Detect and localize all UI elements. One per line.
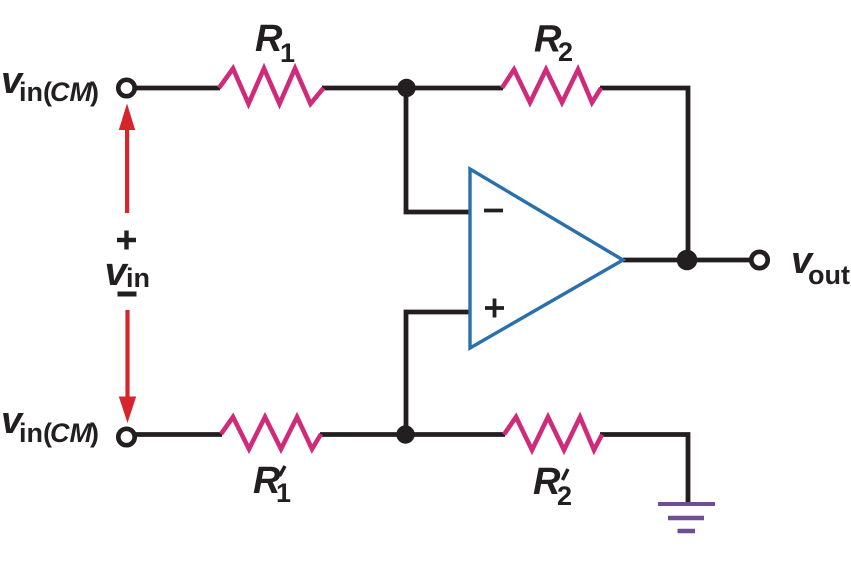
op-amp U1 triangle <box>470 169 623 348</box>
op-amp minus input sign <box>484 209 503 213</box>
wire op-amp output to terminal <box>623 258 750 263</box>
terminal circle bottom-left vin(CM) <box>118 429 134 445</box>
wire R2' to right corner and down to ground <box>600 435 688 503</box>
wire R2 to right corner and down to output node <box>600 88 688 260</box>
resistor R1 <box>219 69 324 104</box>
svg-text:): ) <box>90 418 99 448</box>
svg-text:1: 1 <box>276 478 291 508</box>
wire inverting input from top node <box>406 88 470 212</box>
wire bottom-left horizontal <box>134 432 222 437</box>
svg-text:CM: CM <box>50 77 92 107</box>
node junction output <box>677 250 698 271</box>
wire R1 to R2 through node <box>322 86 503 91</box>
svg-text:in(: in( <box>19 77 52 107</box>
node junction bottom (R1'/R2'/noninverting) <box>396 425 414 443</box>
terminal circle output vout <box>751 252 767 268</box>
svg-text:in: in <box>126 263 150 293</box>
svg-text:out: out <box>808 260 850 290</box>
resistor R1' <box>221 417 321 449</box>
svg-text:CM: CM <box>50 418 92 448</box>
svg-text:in(: in( <box>19 418 52 448</box>
terminal circle top-left vin(CM) <box>118 80 134 96</box>
arrow up (vin +) <box>119 104 135 214</box>
wire top-left horizontal <box>134 86 220 91</box>
resistor R2 <box>502 70 601 103</box>
ground symbol <box>658 504 715 531</box>
svg-text:R: R <box>255 18 283 60</box>
node junction top (R1/R2/inverting) <box>397 79 415 97</box>
svg-text:2: 2 <box>557 481 572 511</box>
wire R1' to R2' through node <box>320 432 505 437</box>
op-amp plus input sign <box>485 299 504 318</box>
plus sign above vin <box>117 231 136 250</box>
svg-text:2: 2 <box>558 37 573 67</box>
resistor R2' <box>504 417 602 450</box>
minus sign below vin <box>118 292 137 297</box>
svg-text:): ) <box>90 77 99 107</box>
svg-text:1: 1 <box>280 38 295 68</box>
arrow down (vin -) <box>119 310 136 423</box>
wire noninverting input from bottom node <box>406 312 470 435</box>
